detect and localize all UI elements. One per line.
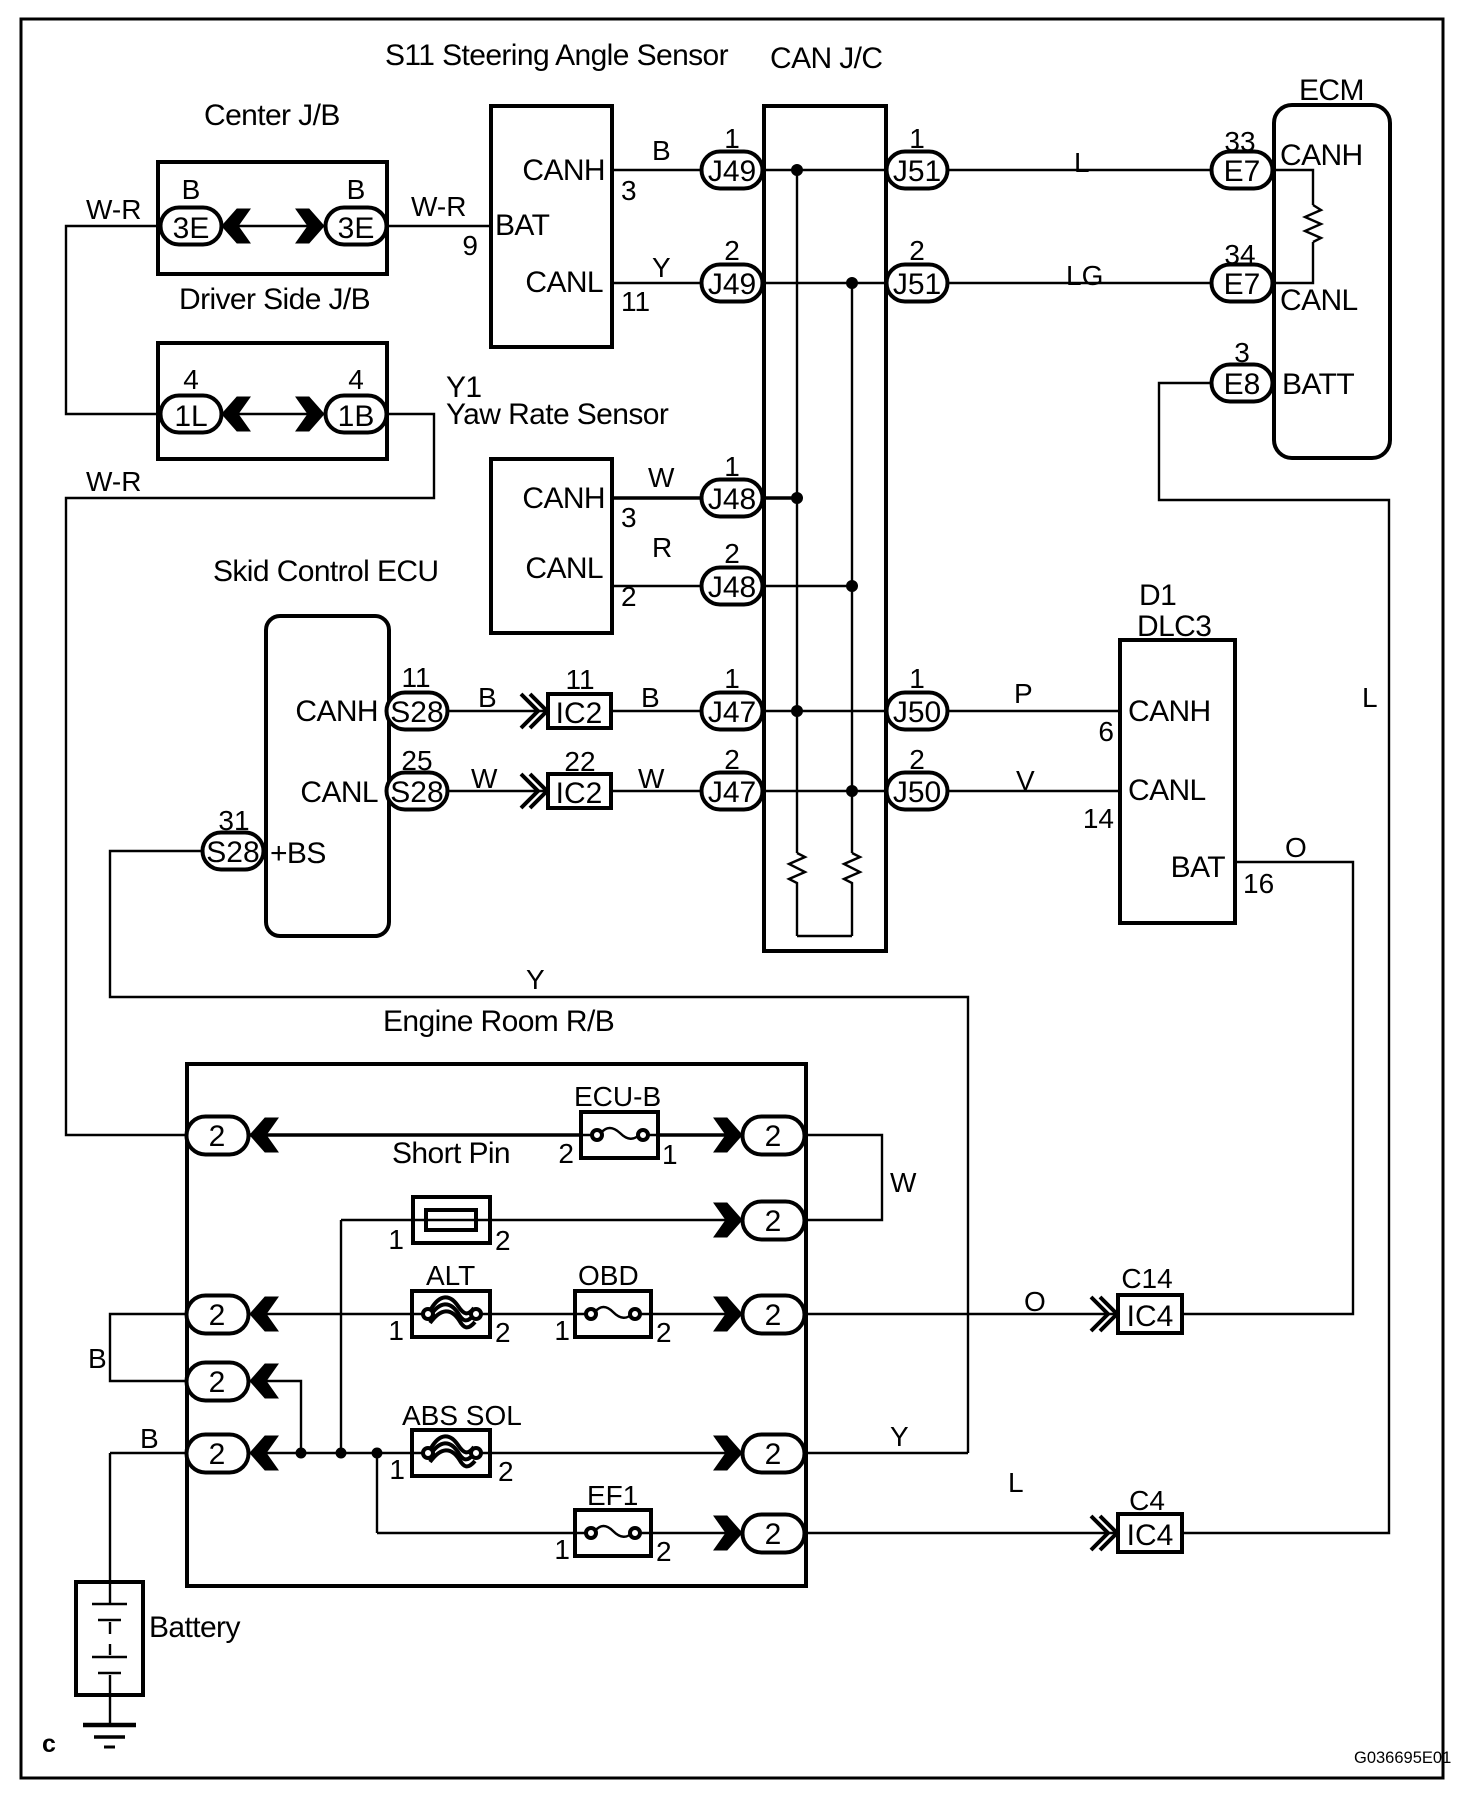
svg-text:L: L bbox=[1008, 1467, 1024, 1498]
svg-text:B: B bbox=[88, 1343, 107, 1374]
arrow row5 left bbox=[250, 1436, 278, 1470]
Engine Room row6 EF1 wire, exits right as L to IC4 C4 bbox=[377, 1532, 1118, 1534]
svg-text:Y: Y bbox=[652, 252, 671, 283]
terminating resistor R-left in CAN J/C bbox=[789, 853, 805, 936]
CAN J/C internal CANL bus vertical bbox=[851, 283, 853, 853]
svg-text:DLC3: DLC3 bbox=[1137, 610, 1211, 643]
svg-text:6: 6 bbox=[1098, 716, 1114, 747]
svg-text:2: 2 bbox=[724, 538, 740, 569]
arrow row6 right bbox=[714, 1516, 742, 1550]
svg-text:1: 1 bbox=[662, 1139, 678, 1170]
svg-text:L: L bbox=[1362, 682, 1378, 713]
svg-text:O: O bbox=[1024, 1286, 1046, 1317]
wire LG from J51-2 to ECM E7-34 bbox=[917, 282, 1242, 284]
svg-text:2: 2 bbox=[765, 1438, 782, 1471]
arrow right Center J/B bbox=[296, 209, 324, 243]
svg-text:IC4: IC4 bbox=[1127, 1519, 1174, 1552]
svg-text:S28: S28 bbox=[206, 836, 259, 869]
svg-text:4: 4 bbox=[348, 364, 364, 395]
IC4 junction connector C4 bbox=[1118, 1514, 1182, 1552]
wire W/W from Skid CANL S28-25 through IC2 to J47-2 and J50-2 bbox=[417, 790, 917, 792]
svg-text:33: 33 bbox=[1224, 126, 1255, 157]
wire between 3E connectors bbox=[222, 225, 324, 227]
svg-text:1: 1 bbox=[724, 663, 740, 694]
connector J50 pin2 bbox=[887, 773, 948, 810]
svg-text:P: P bbox=[1014, 678, 1033, 709]
arrow left Driver Side J/B bbox=[222, 397, 250, 431]
Center J/B box bbox=[158, 162, 387, 274]
wire O from DLC3 BAT pin16 down to IC4 C14 bbox=[1182, 862, 1353, 1314]
svg-text:2: 2 bbox=[656, 1536, 672, 1567]
svg-text:22: 22 bbox=[564, 746, 595, 777]
wire L from ECM E8-3 BATT down right side to IC4 C4 bbox=[1159, 383, 1389, 1533]
arrow right Driver Side J/B bbox=[296, 397, 324, 431]
svg-text:2: 2 bbox=[724, 235, 740, 266]
Engine Room row5 wire right to Y vertical bbox=[773, 1452, 968, 1454]
connector J49 pin1 bbox=[702, 152, 763, 189]
CAN J/C box bbox=[764, 106, 886, 951]
svg-text:S28: S28 bbox=[390, 696, 443, 729]
junction node J51-2/CANL bus bbox=[847, 278, 858, 289]
Driver Side J/B box bbox=[158, 343, 387, 459]
svg-text:2: 2 bbox=[656, 1317, 672, 1348]
svg-text:B: B bbox=[478, 682, 497, 713]
svg-text:CANL: CANL bbox=[525, 552, 603, 585]
wire Y from Skid +BS S28-31 down and across to ABS SOL row bbox=[110, 851, 968, 1453]
svg-text:J51: J51 bbox=[893, 268, 941, 301]
connector 2 row5 right bbox=[743, 1435, 805, 1473]
svg-text:B: B bbox=[140, 1423, 159, 1454]
svg-text:3: 3 bbox=[1234, 337, 1250, 368]
svg-text:2: 2 bbox=[765, 1299, 782, 1332]
vertical from ABS SOL row junction down to EF1 row bbox=[376, 1453, 378, 1533]
wire B/B from Skid CANH S28-11 through IC2 to J47-1 and J50-1 bbox=[417, 710, 917, 712]
svg-text:+BS: +BS bbox=[270, 837, 326, 870]
svg-text:J49: J49 bbox=[708, 155, 756, 188]
junction node row2-link/row5 bbox=[336, 1448, 346, 1458]
svg-text:W: W bbox=[471, 763, 498, 794]
connector J48 pin2 bbox=[702, 568, 763, 605]
Y1 Yaw Rate Sensor box bbox=[491, 459, 612, 633]
connector 3E left (Center J/B) bbox=[161, 208, 222, 246]
wire W-R from Center J/B 3E left to Driver Side J/B 1L bbox=[66, 226, 191, 414]
svg-text:CANL: CANL bbox=[1128, 774, 1206, 807]
svg-text:CANL: CANL bbox=[1280, 284, 1358, 317]
svg-text:W-R: W-R bbox=[86, 466, 141, 497]
junction node J49-1/CANH bus bbox=[792, 165, 803, 176]
svg-text:Battery: Battery bbox=[149, 1611, 240, 1644]
svg-text:LG: LG bbox=[1066, 260, 1103, 291]
S11 Steering Angle Sensor box bbox=[491, 106, 612, 347]
svg-text:2: 2 bbox=[765, 1518, 782, 1551]
wire W from Yaw CANH pin3 to J48-1 bbox=[612, 496, 797, 500]
chevron arrow into IC2 row1 bbox=[521, 694, 547, 728]
arrow row4 left bbox=[250, 1364, 278, 1398]
svg-text:S28: S28 bbox=[390, 776, 443, 809]
wire V from J50-2 to DLC3 CANL pin14 bbox=[917, 790, 1120, 792]
wire Y from S11 CANL pin11 to J49-2 and across to J51-2 bbox=[612, 282, 886, 284]
connector E7 pin34 bbox=[1212, 265, 1273, 302]
fusible link ABS SOL bbox=[412, 1430, 490, 1476]
junction node J47-2/CANL bus bbox=[847, 786, 858, 797]
svg-text:31: 31 bbox=[218, 805, 249, 836]
svg-text:IC2: IC2 bbox=[556, 777, 603, 810]
wire B from S11 CANH pin3 to J49-1 and across CAN J/C to J51-1 bbox=[612, 169, 886, 171]
svg-text:BATT: BATT bbox=[1282, 368, 1354, 401]
svg-text:E8: E8 bbox=[1224, 368, 1261, 401]
CAN J/C internal CANH bus vertical bbox=[796, 170, 798, 853]
svg-text:1: 1 bbox=[388, 1315, 404, 1346]
svg-text:2: 2 bbox=[621, 581, 637, 612]
ECM internal wire from resistor to E7-34 bbox=[1274, 242, 1313, 283]
arrow row1 left bbox=[250, 1118, 278, 1152]
chevron arrow into IC2 row2 bbox=[521, 774, 547, 808]
svg-text:2: 2 bbox=[498, 1456, 514, 1487]
svg-text:J51: J51 bbox=[893, 155, 941, 188]
svg-text:Y: Y bbox=[526, 964, 545, 995]
arrow row3 right bbox=[714, 1297, 742, 1331]
connector J47 pin1 bbox=[702, 693, 763, 730]
svg-text:W: W bbox=[890, 1167, 917, 1198]
svg-text:1: 1 bbox=[388, 1224, 404, 1255]
connector E8 pin3 bbox=[1212, 365, 1273, 402]
junction node J47-1/CANH bus bbox=[792, 706, 803, 717]
svg-text:4: 4 bbox=[183, 364, 199, 395]
wire L from J51-1 to ECM E7-33 bbox=[917, 169, 1242, 171]
ground bbox=[83, 1723, 136, 1728]
Engine Room R/B box bbox=[187, 1064, 806, 1586]
svg-text:E7: E7 bbox=[1224, 268, 1261, 301]
svg-text:11: 11 bbox=[621, 286, 650, 317]
Skid Control ECU box bbox=[266, 616, 389, 936]
svg-text:E7: E7 bbox=[1224, 155, 1261, 188]
svg-text:S11 Steering Angle Sensor: S11 Steering Angle Sensor bbox=[385, 39, 729, 72]
svg-text:B: B bbox=[182, 174, 201, 205]
connector 3E right (Center J/B) bbox=[326, 208, 387, 246]
connector J50 pin1 bbox=[887, 693, 948, 730]
svg-text:9: 9 bbox=[462, 230, 478, 261]
svg-text:L: L bbox=[1074, 147, 1090, 178]
svg-text:3: 3 bbox=[621, 175, 637, 206]
svg-text:O: O bbox=[1285, 832, 1307, 863]
wire B Engine Room row5 ABS SOL row bbox=[110, 1452, 773, 1454]
svg-text:1B: 1B bbox=[338, 400, 375, 433]
connector J51 pin2 bbox=[887, 265, 948, 302]
svg-text:V: V bbox=[1016, 765, 1035, 796]
svg-text:BAT: BAT bbox=[495, 209, 550, 242]
svg-text:CANH: CANH bbox=[522, 154, 605, 187]
svg-text:3E: 3E bbox=[338, 212, 375, 245]
Engine Room row1 wire fuse to right connector bbox=[658, 1133, 773, 1137]
svg-text:2: 2 bbox=[209, 1438, 226, 1471]
wire B Engine Room row3 left connector loop to row4 connector bbox=[110, 1314, 217, 1381]
svg-text:2: 2 bbox=[765, 1120, 782, 1153]
svg-text:2: 2 bbox=[209, 1366, 226, 1399]
svg-text:2: 2 bbox=[909, 235, 925, 266]
chevron arrow into IC4 C4 bbox=[1091, 1516, 1117, 1550]
connector 2 row1 right bbox=[743, 1117, 805, 1155]
ECM internal wire to terminating resistor bbox=[1274, 170, 1313, 205]
arrow row2 right bbox=[714, 1203, 742, 1237]
svg-text:C14: C14 bbox=[1121, 1263, 1172, 1294]
svg-text:Yaw Rate Sensor: Yaw Rate Sensor bbox=[446, 398, 669, 431]
fuse OBD bbox=[575, 1291, 651, 1337]
svg-text:B: B bbox=[347, 174, 366, 205]
connector 2 row6 right bbox=[743, 1515, 805, 1553]
arrow row3 left bbox=[250, 1297, 278, 1331]
svg-text:Center J/B: Center J/B bbox=[204, 99, 340, 132]
svg-text:CANH: CANH bbox=[1128, 695, 1211, 728]
svg-text:3: 3 bbox=[621, 502, 637, 533]
svg-text:R: R bbox=[652, 532, 672, 563]
junction node J48-2/CANL bus bbox=[847, 581, 858, 592]
svg-text:OBD: OBD bbox=[578, 1260, 639, 1291]
svg-text:W: W bbox=[648, 462, 675, 493]
svg-text:CANH: CANH bbox=[1280, 139, 1363, 172]
connector S28 pin25 bbox=[387, 773, 448, 810]
svg-text:J49: J49 bbox=[708, 268, 756, 301]
DLC3 box bbox=[1120, 640, 1235, 923]
svg-text:IC4: IC4 bbox=[1127, 1300, 1174, 1333]
svg-text:CANL: CANL bbox=[300, 776, 378, 809]
svg-text:Skid Control ECU: Skid Control ECU bbox=[213, 555, 438, 588]
connector J49 pin2 bbox=[702, 265, 763, 302]
wire W-R from 1B down left side to Engine Room R/B row1 bbox=[66, 414, 434, 1135]
connector S28 pin31 bbox=[203, 833, 264, 870]
svg-text:CAN J/C: CAN J/C bbox=[770, 42, 882, 75]
svg-text:2: 2 bbox=[909, 744, 925, 775]
svg-text:Engine Room R/B: Engine Room R/B bbox=[383, 1005, 614, 1038]
svg-text:CANH: CANH bbox=[295, 695, 378, 728]
IC4 junction connector C14 bbox=[1118, 1295, 1182, 1333]
wire W-R from 3E right to S11 BAT pin 9 bbox=[356, 225, 491, 227]
wire from battery positive up to row5 bbox=[109, 1453, 111, 1604]
svg-text:ECU-B: ECU-B bbox=[574, 1081, 661, 1112]
svg-text:16: 16 bbox=[1243, 868, 1274, 899]
svg-text:1L: 1L bbox=[174, 400, 207, 433]
svg-text:W-R: W-R bbox=[411, 191, 466, 222]
chevron arrow into IC4 C14 bbox=[1091, 1297, 1117, 1331]
svg-text:34: 34 bbox=[1224, 239, 1255, 270]
arrow row1 right bbox=[714, 1118, 742, 1152]
svg-text:c: c bbox=[42, 1730, 56, 1758]
svg-text:1: 1 bbox=[909, 123, 925, 154]
svg-text:J48: J48 bbox=[708, 571, 756, 604]
IC2 junction connector row2 bbox=[548, 774, 611, 810]
terminating resistor R-right in CAN J/C bbox=[844, 853, 860, 936]
connector S28 pin11 bbox=[387, 693, 448, 730]
svg-text:2: 2 bbox=[495, 1225, 511, 1256]
svg-text:1: 1 bbox=[909, 663, 925, 694]
junction node J48-1/CANH bus bbox=[792, 493, 803, 504]
svg-text:11: 11 bbox=[401, 662, 430, 693]
svg-text:BAT: BAT bbox=[1171, 851, 1226, 884]
svg-text:IC2: IC2 bbox=[556, 697, 603, 730]
svg-text:3E: 3E bbox=[173, 212, 210, 245]
Engine Room row2 wire from junction through fusible link to right connector bbox=[341, 1219, 773, 1221]
wire R from Yaw CANL pin2 to J48-2 bbox=[612, 585, 852, 587]
svg-text:G036695E01: G036695E01 bbox=[1354, 1749, 1451, 1767]
svg-text:1: 1 bbox=[554, 1534, 570, 1565]
vertical wire from row2 fusible link down to ABS SOL row junction bbox=[340, 1220, 342, 1453]
wire between 1L and 1B connectors bbox=[222, 413, 324, 415]
svg-text:CANL: CANL bbox=[525, 266, 603, 299]
Engine Room row3 wire through ALT and OBD, exits right as O to IC4 C14 bbox=[217, 1313, 1118, 1315]
svg-text:J47: J47 bbox=[708, 696, 756, 729]
connector 2 row3 left bbox=[187, 1296, 249, 1334]
svg-text:CANH: CANH bbox=[522, 482, 605, 515]
fuse EF1 bbox=[575, 1510, 651, 1556]
svg-text:B: B bbox=[641, 682, 660, 713]
svg-text:1: 1 bbox=[389, 1454, 405, 1485]
svg-text:2: 2 bbox=[558, 1138, 574, 1169]
wire W from row1 right connector down to row2 right connector bbox=[773, 1135, 882, 1220]
battery bbox=[76, 1582, 143, 1695]
connector J51 pin1 bbox=[887, 152, 948, 189]
connector 2 row2 right bbox=[743, 1202, 805, 1240]
Engine Room row4 stub to vertical junction bbox=[248, 1381, 301, 1453]
svg-text:J47: J47 bbox=[708, 776, 756, 809]
svg-text:2: 2 bbox=[724, 744, 740, 775]
connector 1L (Driver Side J/B) bbox=[161, 396, 222, 434]
IC2 junction connector row1 bbox=[548, 694, 611, 730]
arrow row5 right bbox=[714, 1436, 742, 1470]
svg-text:25: 25 bbox=[401, 745, 432, 776]
fuse ECU-B bbox=[581, 1112, 658, 1158]
connector J48 pin1 bbox=[702, 480, 763, 517]
svg-text:Short Pin: Short Pin bbox=[392, 1137, 510, 1170]
wire joining resistors at bottom of CAN J/C bbox=[797, 935, 852, 937]
svg-text:1: 1 bbox=[724, 451, 740, 482]
connector 2 row3 right bbox=[743, 1296, 805, 1334]
svg-text:J50: J50 bbox=[893, 696, 941, 729]
svg-text:ABS SOL: ABS SOL bbox=[402, 1400, 522, 1431]
connector E7 pin33 bbox=[1212, 152, 1273, 189]
terminating resistor in ECM bbox=[1305, 205, 1321, 242]
svg-text:1: 1 bbox=[554, 1315, 570, 1346]
svg-text:ALT: ALT bbox=[426, 1260, 475, 1291]
svg-text:D1: D1 bbox=[1139, 579, 1176, 612]
fusible link ALT bbox=[412, 1291, 490, 1337]
Engine Room row1 Short Pin wire left bbox=[217, 1133, 581, 1137]
svg-text:W-R: W-R bbox=[86, 194, 141, 225]
svg-text:Y: Y bbox=[890, 1421, 909, 1452]
svg-text:14: 14 bbox=[1083, 803, 1114, 834]
svg-text:11: 11 bbox=[565, 664, 594, 695]
connector 2 row5 left bbox=[187, 1435, 249, 1473]
connector J47 pin2 bbox=[702, 773, 763, 810]
junction node row5/row6 bbox=[372, 1448, 382, 1458]
wire P from J50-1 to DLC3 CANH pin6 bbox=[917, 710, 1120, 712]
svg-text:C4: C4 bbox=[1129, 1485, 1165, 1516]
svg-text:J50: J50 bbox=[893, 776, 941, 809]
svg-text:EF1: EF1 bbox=[587, 1480, 638, 1511]
connector 2 row4 left bbox=[187, 1363, 249, 1401]
svg-text:2: 2 bbox=[765, 1205, 782, 1238]
junction node row4/row5 bbox=[296, 1448, 306, 1458]
svg-text:2: 2 bbox=[209, 1120, 226, 1153]
svg-text:2: 2 bbox=[209, 1299, 226, 1332]
fusible link row2 (short pin holder) bbox=[413, 1197, 490, 1243]
connector 1B (Driver Side J/B) bbox=[326, 396, 387, 434]
svg-text:1: 1 bbox=[724, 123, 740, 154]
svg-text:B: B bbox=[652, 135, 671, 166]
svg-text:J48: J48 bbox=[708, 483, 756, 516]
svg-text:ECM: ECM bbox=[1299, 74, 1364, 107]
svg-text:Driver Side J/B: Driver Side J/B bbox=[179, 283, 370, 316]
connector 2 row1 left (Engine Room) bbox=[187, 1117, 249, 1155]
ECM box bbox=[1274, 105, 1390, 458]
arrow left Center J/B bbox=[222, 209, 250, 243]
svg-text:2: 2 bbox=[495, 1317, 511, 1348]
svg-text:W: W bbox=[638, 763, 665, 794]
